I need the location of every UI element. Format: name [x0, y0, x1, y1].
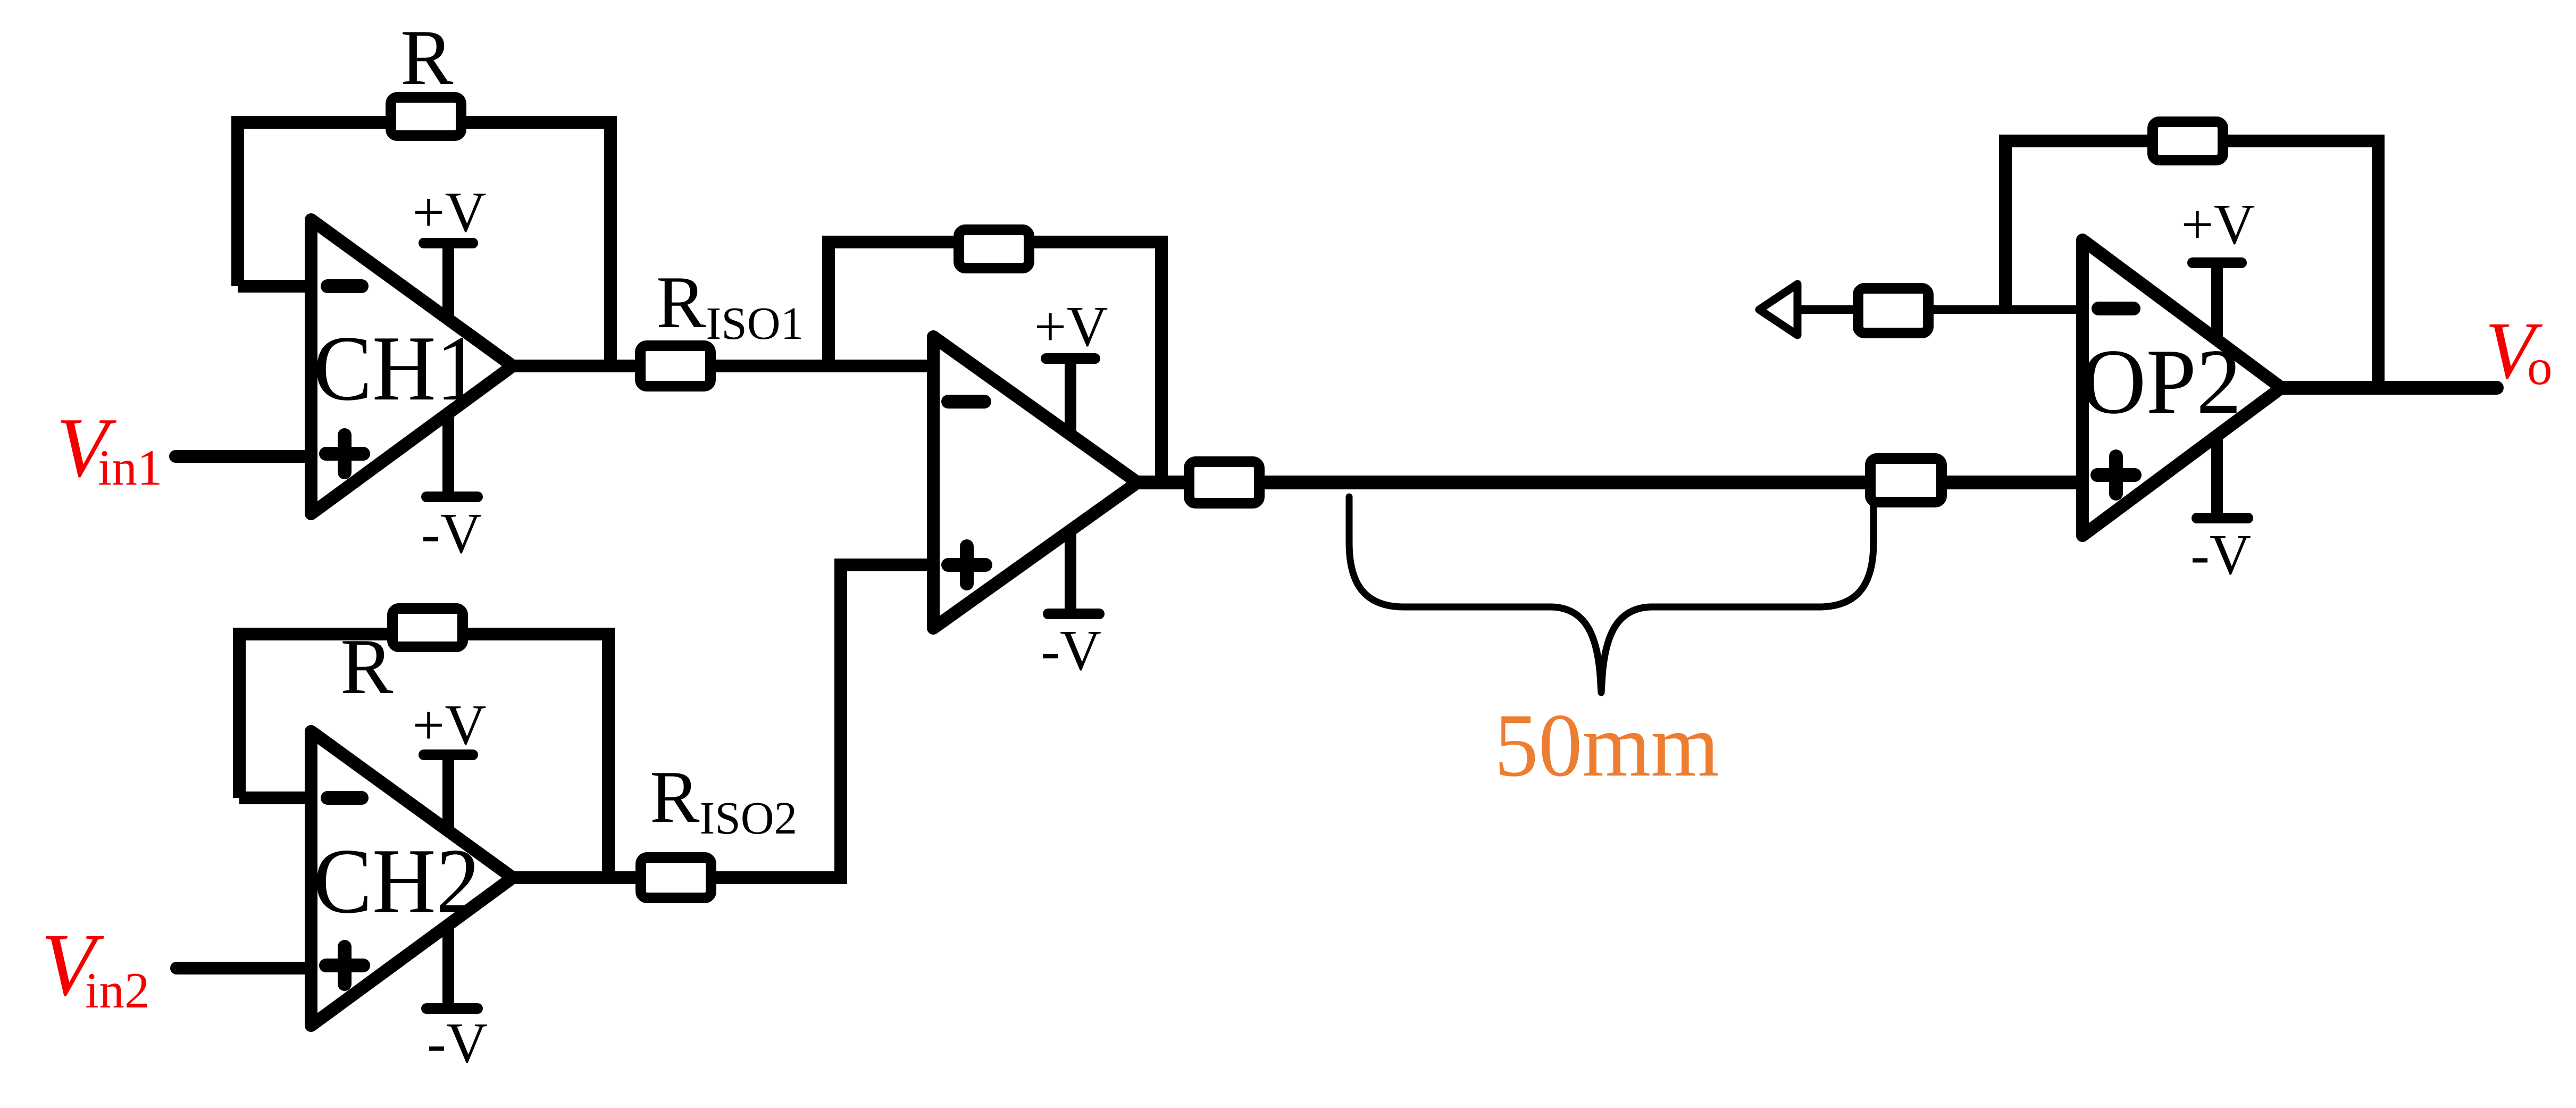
wire CH1 output through RISO1 to mid op-amp minus input	[513, 360, 933, 372]
svg-text:+V: +V	[2181, 193, 2255, 256]
OP2 -V supply	[2190, 436, 2251, 587]
svg-text:OP2: OP2	[2081, 330, 2242, 433]
CH2 -V supply	[426, 926, 488, 1075]
svg-text:in1: in1	[98, 439, 162, 496]
wire Vin2 input to CH2 +	[177, 962, 311, 974]
U3 +V supply	[1034, 295, 1108, 436]
svg-text:R: R	[400, 14, 454, 102]
wire CH2 output through RISO2 then up to mid op-amp plus input	[513, 565, 933, 878]
wire mid op-amp feedback loop	[829, 242, 1161, 482]
resistor R (CH2 feedback)	[392, 609, 463, 647]
svg-text:+V: +V	[413, 181, 487, 244]
resistor OP2 feedback	[2153, 122, 2223, 160]
op-amp CH1	[311, 220, 513, 514]
svg-text:-V: -V	[427, 1012, 488, 1075]
wire OP2 minus input row with arrow tail	[1784, 305, 2082, 314]
svg-text:-V: -V	[1041, 619, 1101, 682]
svg-text:50mm: 50mm	[1494, 695, 1719, 795]
op-amp OP2	[2081, 240, 2281, 536]
resistor R (CH1 feedback)	[391, 97, 461, 136]
CH2 +V supply	[413, 694, 487, 831]
svg-text:CH2: CH2	[313, 829, 480, 932]
wire OP2 output to Vo	[2281, 381, 2497, 395]
wire CH2 feedback loop	[239, 634, 608, 878]
op-amp U3 (middle summing amp)	[933, 337, 1138, 628]
svg-text:+V: +V	[413, 694, 487, 757]
resistor RISO2	[641, 857, 711, 898]
svg-text:-V: -V	[421, 502, 482, 565]
svg-text:R: R	[340, 623, 394, 711]
svg-text:in2: in2	[85, 962, 149, 1019]
connector pad after mid op-amp output	[1189, 462, 1259, 503]
arrow head pointing left on OP2 minus tail	[1759, 284, 1797, 335]
wire Vin1 input to CH1 +	[175, 450, 311, 463]
svg-text:-V: -V	[2190, 523, 2251, 587]
OP2 +V supply	[2181, 193, 2255, 340]
wire OP2 feedback loop	[2005, 141, 2378, 388]
svg-text:CH1: CH1	[313, 316, 480, 420]
U3 -V supply	[1041, 529, 1101, 682]
resistor RISO1	[640, 346, 710, 386]
brace for 50mm span	[1349, 497, 1874, 693]
CH1 +V supply	[413, 181, 487, 319]
resistor mid op-amp feedback	[959, 230, 1029, 268]
connector pad before OP2 plus input	[1870, 459, 1942, 502]
wire mid op-amp output long run to OP2 plus input	[1138, 476, 2082, 489]
op-amp CH2	[311, 731, 513, 1026]
CH1 -V supply	[421, 414, 482, 565]
svg-text:o: o	[2527, 339, 2553, 395]
wire CH1 feedback loop (minus node up, across top, down to output)	[238, 122, 610, 366]
connector pad on OP2 minus tail	[1858, 288, 1928, 333]
svg-text:+V: +V	[1034, 295, 1108, 359]
